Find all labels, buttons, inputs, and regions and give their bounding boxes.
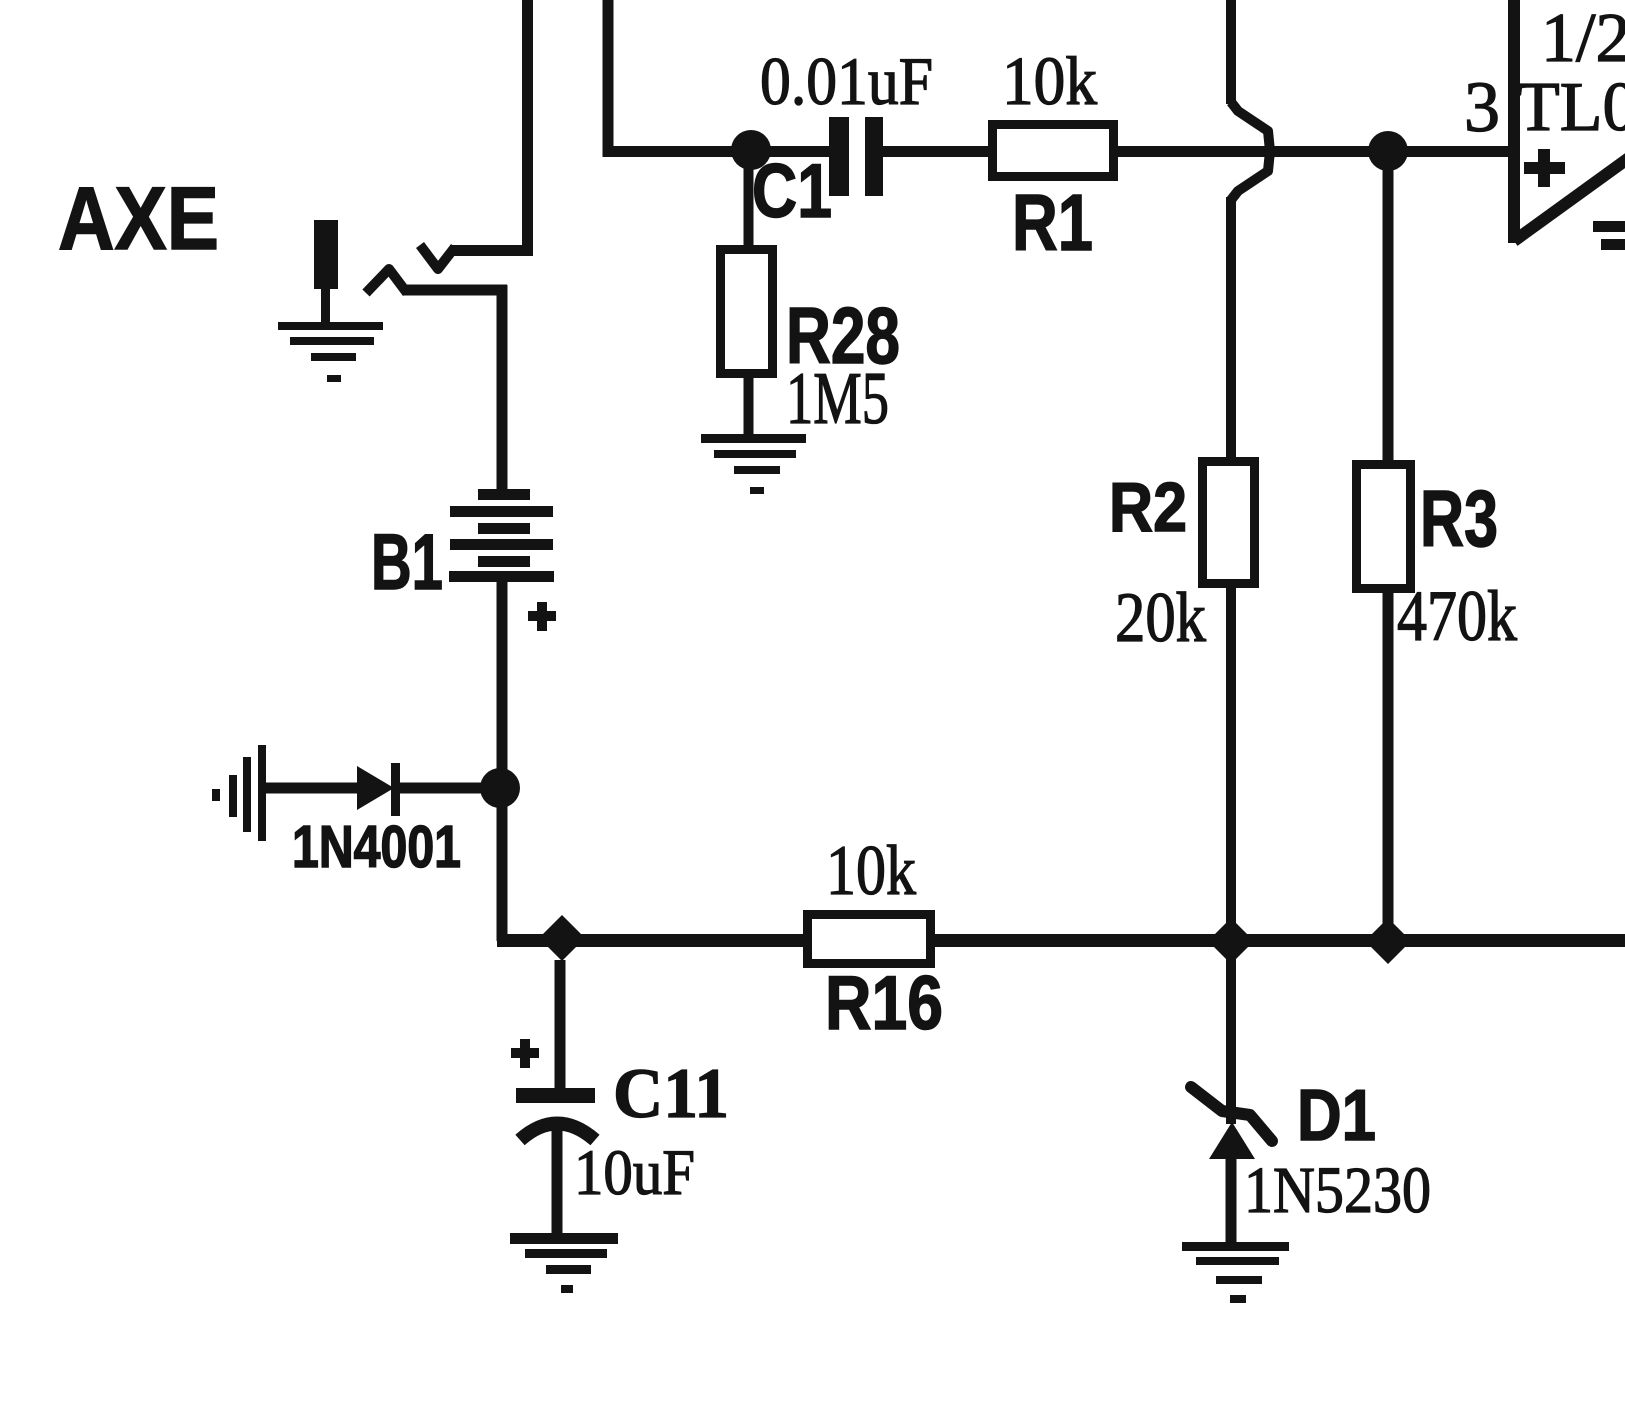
- wire J3 to zener D1: [1226, 941, 1236, 1124]
- battery B1: [449, 489, 554, 582]
- wire input horizontal to node: [603, 146, 752, 157]
- wire J5 to C11: [555, 960, 566, 1090]
- ground C11: [510, 1233, 618, 1293]
- svg-text:C11: C11: [613, 1055, 729, 1133]
- wire tip switch arm horizontal: [450, 245, 533, 256]
- wire hop over horizontal wire: [1231, 102, 1270, 200]
- zener D1 triangle: [1209, 1122, 1255, 1159]
- ground D1: [1182, 1242, 1289, 1303]
- svg-text:10uF: 10uF: [574, 1137, 695, 1209]
- op-amp U1 left edge: [1508, 0, 1520, 243]
- node J4 R3 node: [1365, 918, 1411, 964]
- battery plus sign: [528, 602, 556, 631]
- DC input connector bars: [212, 745, 266, 841]
- wire ring to battery: [497, 285, 508, 492]
- jack J plug tip: [314, 220, 338, 289]
- svg-text:20k: 20k: [1115, 579, 1206, 657]
- wire hop to R2: [1226, 197, 1236, 461]
- wire input vertical to top edge: [603, 0, 614, 152]
- svg-text:B1: B1: [371, 517, 443, 606]
- ground jack sleeve: [278, 322, 383, 382]
- wire C1 to R1: [883, 146, 992, 157]
- wire R1 to op-amp input: [1114, 146, 1510, 157]
- resistor R3: [1357, 465, 1411, 589]
- C11 plus sign: [511, 1039, 539, 1068]
- wire J2 down to R3: [1383, 152, 1394, 464]
- wire diode to node J6: [400, 783, 500, 794]
- svg-text:1/2: 1/2: [1541, 0, 1625, 77]
- diode 1N4001 cathode bar: [391, 763, 400, 816]
- zener D1 cathode bar: [1191, 1087, 1272, 1141]
- jack ring switch arm: [366, 269, 407, 293]
- wire J6 down to rail corner: [497, 788, 508, 941]
- resistor R16: [808, 915, 931, 964]
- resistor R2: [1203, 462, 1255, 584]
- node J2 noninverting input node: [1368, 131, 1408, 171]
- wire J1 to R28: [744, 152, 754, 250]
- node J1 input node: [731, 130, 771, 170]
- ground clipped at right edge: [1593, 221, 1625, 250]
- op-amp plus input sign: [1524, 149, 1565, 187]
- wire ring arm horizontal: [403, 285, 507, 296]
- resistor R28: [721, 250, 773, 374]
- capacitor C1 plates: [829, 117, 849, 196]
- svg-text:R2: R2: [1109, 468, 1187, 546]
- wire J1 to C1: [751, 146, 830, 157]
- svg-text:470k: 470k: [1397, 576, 1517, 656]
- wire D1 to ground: [1226, 1155, 1237, 1244]
- svg-text:1N5230: 1N5230: [1244, 1154, 1431, 1227]
- svg-text:1N4001: 1N4001: [292, 814, 461, 880]
- wire jack tip to top edge: [522, 0, 533, 251]
- tip contact chevron: [420, 245, 455, 269]
- wire battery to diode node: [497, 582, 508, 788]
- svg-text:3: 3: [1464, 67, 1500, 147]
- diode 1N4001 triangle: [357, 766, 394, 810]
- wire R2 to bias node: [1226, 583, 1236, 941]
- resistor R1: [993, 125, 1114, 177]
- svg-text:0.01uF: 0.01uF: [760, 43, 933, 119]
- wire C11 to ground: [552, 1128, 563, 1235]
- node J3 zener node: [1208, 918, 1254, 964]
- wire connector to diode: [266, 783, 360, 794]
- wire R28 to ground: [744, 373, 754, 436]
- ground R28: [701, 434, 806, 494]
- svg-text:D1: D1: [1297, 1076, 1376, 1156]
- svg-text:10k: 10k: [1002, 43, 1097, 119]
- svg-text:1M5: 1M5: [786, 358, 889, 440]
- svg-text:R16: R16: [825, 961, 943, 1046]
- svg-text:AXE: AXE: [58, 168, 219, 268]
- svg-text:C1: C1: [752, 149, 832, 234]
- wire jack tip stem: [321, 289, 330, 323]
- op-amp U1 bottom edge: [1514, 152, 1625, 241]
- svg-text:TL07: TL07: [1517, 69, 1625, 146]
- wire R2 top vertical from top edge: [1226, 0, 1236, 104]
- svg-text:R1: R1: [1012, 178, 1093, 267]
- capacitor C11 top plate: [516, 1088, 595, 1103]
- wire bias rail horizontal: [497, 934, 1625, 947]
- svg-text:10k: 10k: [826, 832, 916, 910]
- svg-text:R3: R3: [1420, 474, 1498, 563]
- node J6 battery diode node: [480, 768, 520, 808]
- node J5 C11 node: [539, 915, 585, 961]
- wire R3 to bias node: [1383, 588, 1394, 941]
- capacitor C11 curved plate: [520, 1124, 595, 1141]
